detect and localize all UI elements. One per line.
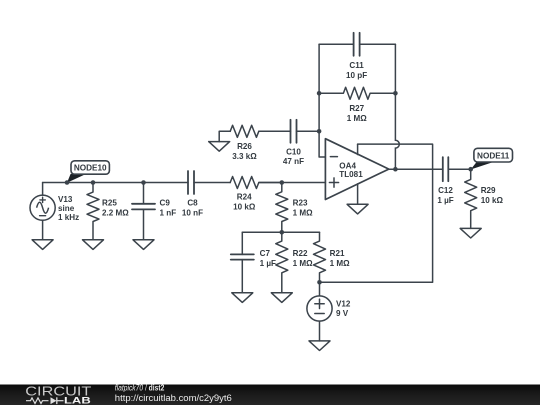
wire C10 to inverting node — [297, 130, 320, 132]
svg-text:C11: C11 — [349, 61, 364, 70]
svg-text:R22: R22 — [293, 249, 308, 258]
svg-text:C9: C9 — [160, 199, 171, 208]
svg-text:1 MΩ: 1 MΩ — [293, 209, 313, 218]
footer credit text — [115, 384, 232, 404]
svg-text:R24: R24 — [237, 193, 252, 202]
wire feedback left — [318, 44, 320, 131]
resistor R29 — [465, 169, 477, 228]
wire C12 to NODE11 — [448, 168, 470, 170]
node junction bias — [280, 230, 285, 235]
node NODE11 flag — [468, 148, 512, 171]
svg-text:C7: C7 — [260, 249, 271, 258]
svg-text:1 MΩ: 1 MΩ — [293, 259, 313, 268]
svg-text:1 nF: 1 nF — [160, 209, 177, 218]
wire bias node row — [242, 231, 319, 233]
svg-text:10 nF: 10 nF — [182, 209, 203, 218]
C12 label — [437, 186, 453, 205]
svg-text:C10: C10 — [286, 147, 301, 156]
resistor R26 — [219, 125, 259, 141]
svg-text:R26: R26 — [237, 142, 252, 151]
ground for R29 — [460, 228, 481, 238]
voltage source V13 (sine, 1 kHz) — [30, 183, 55, 240]
ground for R22 — [271, 293, 292, 303]
node junction R24/R23 — [280, 180, 285, 185]
C8 label — [182, 199, 203, 218]
capacitor C11 — [319, 33, 395, 56]
ground for C9 — [133, 240, 154, 250]
wire R24 to op-amp + input — [259, 182, 326, 184]
ground for C7 — [232, 293, 253, 303]
wire main input row — [43, 182, 188, 184]
ground for R26 — [209, 142, 230, 152]
svg-text:9 V: 9 V — [336, 309, 349, 318]
wire feedback right (hop over supply) — [395, 44, 399, 169]
svg-text:http://circuitlab.com/c2y9yt6: http://circuitlab.com/c2y9yt6 — [115, 393, 232, 403]
svg-text:TL081: TL081 — [339, 170, 363, 179]
node junction inverting input — [317, 129, 322, 134]
svg-text:R21: R21 — [330, 249, 345, 258]
svg-text:OA4: OA4 — [339, 161, 356, 170]
resistor R24 — [230, 177, 282, 189]
resistor R21 — [314, 232, 326, 282]
svg-text:C12: C12 — [438, 186, 453, 195]
wire op-amp V+ stub — [357, 144, 359, 154]
ground for V13 — [32, 240, 53, 250]
svg-text:R23: R23 — [293, 199, 308, 208]
OA4 label — [339, 161, 363, 179]
resistor R23 — [276, 183, 288, 233]
wire output — [389, 168, 443, 170]
svg-text:10 kΩ: 10 kΩ — [233, 203, 256, 212]
voltage source V12 (9 V) — [307, 282, 332, 341]
wire R26 to C10 — [259, 130, 291, 132]
svg-text:3.3 kΩ: 3.3 kΩ — [232, 152, 257, 161]
wire to op-amp - input — [319, 131, 325, 157]
C9 label — [160, 199, 177, 218]
capacitor C8 — [188, 171, 194, 194]
svg-text:1 µF: 1 µF — [260, 259, 276, 268]
svg-text:10 pF: 10 pF — [346, 71, 367, 80]
C7 label — [260, 249, 276, 268]
svg-text:C8: C8 — [187, 199, 198, 208]
svg-text:1 µF: 1 µF — [437, 196, 453, 205]
svg-text:1 MΩ: 1 MΩ — [347, 114, 367, 123]
ground for op-amp — [347, 204, 368, 214]
capacitor C12 — [443, 157, 449, 181]
svg-text:1 MΩ: 1 MΩ — [330, 259, 350, 268]
svg-text:1 kHz: 1 kHz — [58, 213, 79, 222]
CircuitLab logo resistor-diode glyph and LAB — [26, 396, 91, 405]
svg-text:R29: R29 — [481, 186, 496, 195]
capacitor C10 — [291, 120, 297, 143]
capacitor C9 — [132, 180, 155, 240]
node junction R27 left — [317, 91, 322, 96]
resistor R22 — [276, 232, 288, 292]
node NODE10 flag — [65, 161, 110, 185]
V12 value label — [336, 299, 351, 318]
svg-text:10 kΩ: 10 kΩ — [481, 196, 504, 205]
svg-text:V13: V13 — [58, 195, 73, 204]
R26 label — [232, 142, 257, 161]
resistor R27 — [319, 87, 395, 99]
wire C8 to R24 — [194, 182, 230, 184]
R27 label — [347, 104, 367, 123]
svg-text:NODE10: NODE10 — [74, 164, 107, 173]
R29 label — [481, 186, 504, 205]
R21 label — [330, 249, 350, 268]
ground for V12 — [309, 341, 330, 351]
svg-text:R27: R27 — [349, 104, 364, 113]
capacitor C7 — [231, 232, 254, 292]
wire V+ supply — [320, 144, 433, 282]
node junction R27 right — [393, 91, 398, 96]
svg-text:sine: sine — [58, 204, 75, 213]
svg-text:2.2 MΩ: 2.2 MΩ — [102, 209, 129, 218]
wire op-amp V- stub — [357, 184, 359, 204]
R24 label — [233, 193, 256, 212]
svg-text:flatpick70 / dist2: flatpick70 / dist2 — [115, 384, 165, 393]
op-amp OA4 TL081 — [325, 139, 388, 200]
svg-text:47 nF: 47 nF — [283, 157, 304, 166]
svg-text:R25: R25 — [102, 199, 117, 208]
R23 label — [293, 199, 313, 218]
svg-text:LAB: LAB — [64, 396, 91, 405]
C11 label — [346, 61, 367, 80]
svg-text:V12: V12 — [336, 299, 351, 308]
resistor R25 — [87, 180, 99, 240]
ground for R25 — [83, 240, 104, 250]
footer banner background — [0, 385, 540, 405]
R25 label — [102, 199, 129, 218]
svg-text:NODE11: NODE11 — [477, 152, 510, 161]
V13 value label — [58, 195, 79, 222]
node junction V12+ — [317, 280, 322, 285]
R22 label — [293, 249, 313, 268]
node junction output — [393, 167, 398, 172]
CircuitLab logo wordmark — [25, 383, 91, 398]
C10 label — [283, 147, 304, 166]
